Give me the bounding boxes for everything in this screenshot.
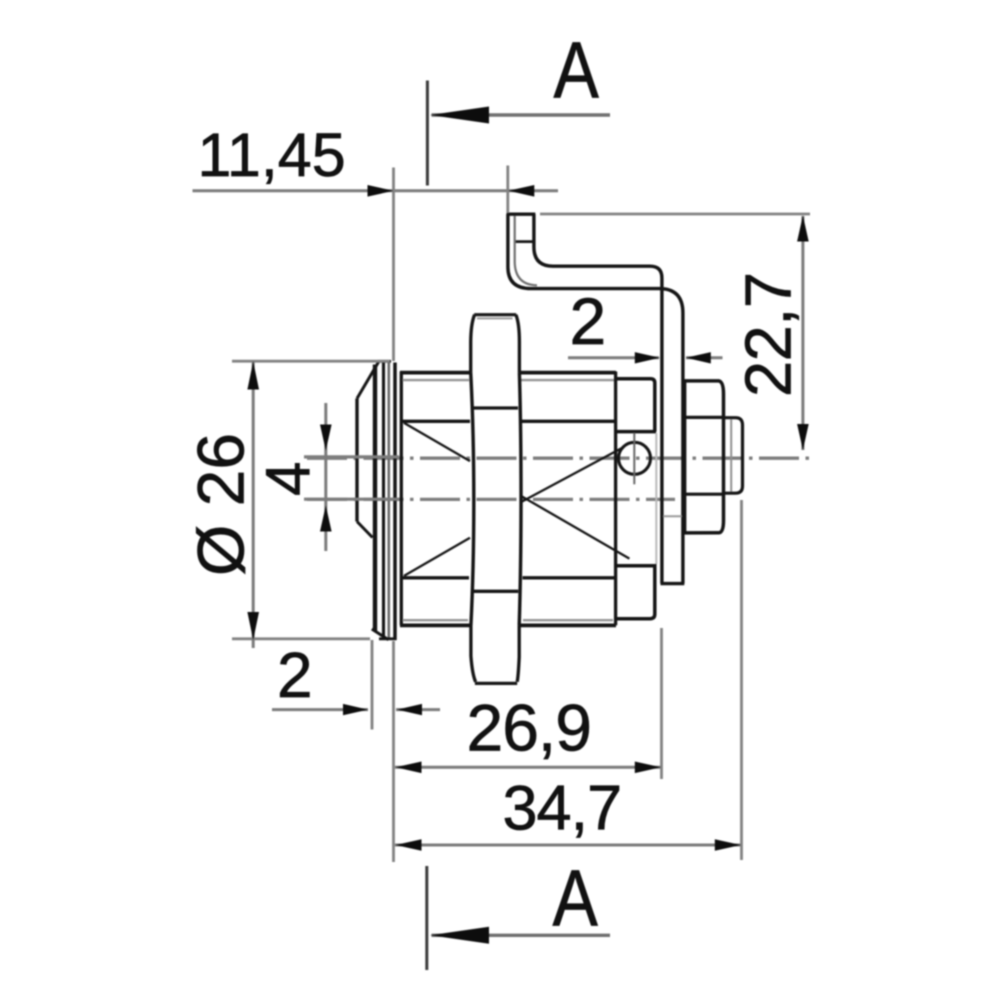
svg-text:2: 2 [277, 639, 313, 711]
head top edge [378, 360, 391, 363]
body inner bottom line [403, 576, 616, 579]
svg-text:4: 4 [254, 462, 323, 496]
dim 4 arrow up [320, 506, 332, 532]
cam bar left edge [471, 373, 474, 626]
dim 26,9 arrow left [396, 762, 422, 774]
dim 22,7 arrow up [797, 216, 809, 242]
diagonal right up [520, 448, 623, 503]
body thread relief bottom gray [403, 619, 614, 621]
head back face [393, 363, 397, 641]
head bottom chamfer [372, 629, 389, 640]
dim 4 line [324, 403, 327, 551]
dim 22,7 extension top [540, 213, 810, 216]
dim 11,45 extension right [506, 166, 509, 214]
dim 2 bracket arrow right [635, 352, 660, 363]
dim dia26 extension bottom [232, 637, 370, 640]
head rim front edge [373, 365, 377, 631]
body rear top block [616, 379, 656, 432]
body thread relief top gray [403, 379, 615, 381]
nut facet bottom [685, 493, 723, 496]
cam bar right edge [519, 373, 521, 626]
dim 34,7 arrow right [715, 839, 741, 851]
dim 11,45 arrow right [368, 185, 394, 197]
dim dia26 arrow up [247, 362, 259, 390]
dim 2 head line left [272, 708, 368, 711]
section arrow line top [432, 113, 611, 116]
head rim ring line [382, 362, 385, 639]
dim 4 arrow down [320, 425, 332, 451]
cam bar top cap underline gray [477, 317, 513, 319]
dim 2 bracket arrow left [686, 352, 711, 363]
svg-text:11,45: 11,45 [198, 121, 346, 189]
dim 11,45 extension left [392, 168, 395, 362]
bracket notch tick [516, 240, 535, 243]
head bottom edge [379, 637, 397, 640]
cam bar internal top line [473, 406, 518, 409]
dim 22,7 line [801, 216, 804, 450]
shaft thread line gray [730, 420, 732, 492]
body rear bottom block [616, 564, 656, 619]
bracket top cap [507, 212, 536, 215]
shaft end [724, 418, 743, 494]
section line A bottom [425, 866, 428, 970]
diagonal right down [520, 495, 629, 558]
body left edge [400, 372, 403, 626]
head rim ring line gray [387, 362, 390, 638]
cam bar internal bottom line [473, 590, 519, 593]
section arrowhead top [430, 107, 489, 124]
body rear faint line [655, 433, 657, 564]
svg-text:22,7: 22,7 [732, 272, 805, 397]
diagonal upper left [404, 423, 470, 461]
dim dia26 extension top [232, 360, 390, 363]
dim 2 head extension left [371, 640, 374, 730]
bracket outer contour [508, 214, 683, 584]
bracket hidden tick gray [663, 515, 682, 517]
dim 4 extension segments [304, 457, 399, 499]
hole circle [619, 442, 651, 474]
body top edge [400, 371, 616, 375]
dim 11,45 line [193, 189, 559, 192]
svg-text:26,9: 26,9 [467, 691, 591, 765]
dim 2 head line right [396, 708, 440, 711]
bracket fold edge line [515, 216, 537, 285]
dim 26,9 extension right [660, 628, 663, 779]
body bottom edge [400, 624, 616, 628]
centerline body axis [307, 498, 675, 501]
dim 26,9 line [395, 766, 661, 769]
dim 2 head arrow left [397, 704, 422, 715]
cam bar bottom cap [475, 682, 517, 685]
centerline main axis [307, 457, 812, 460]
svg-text:A: A [554, 25, 600, 114]
dim 34,7 extension right [740, 500, 743, 860]
dim 2 bracket line left [568, 356, 659, 359]
dim 11,45 arrow left [508, 185, 534, 197]
head bottom cone diagonal [357, 522, 373, 538]
cam bar top cap [474, 313, 516, 316]
cam bar top flanks [471, 315, 520, 373]
nut outline [684, 380, 724, 534]
section arrowhead bottom [430, 927, 489, 944]
bracket inner contour [534, 214, 662, 584]
head top cone diagonal [357, 362, 379, 399]
dim 2 head arrow right [343, 704, 368, 715]
diagonal lower left [404, 538, 470, 576]
dim dia26 arrow down [247, 612, 259, 640]
section arrow line bottom [432, 934, 611, 937]
hole crosshair vertical [633, 433, 635, 485]
section line A top [426, 81, 429, 186]
dim 2 bracket line right [686, 356, 723, 359]
bracket bottom cap [661, 582, 685, 585]
cam bar bottom flanks [471, 625, 519, 681]
svg-text:2: 2 [570, 284, 607, 358]
dim 34,7 line [395, 844, 741, 847]
dim 26,9 arrow right [635, 762, 661, 774]
dim 22,7 arrow down [797, 424, 809, 450]
svg-text:A: A [553, 853, 599, 942]
svg-text:Ø 26: Ø 26 [184, 433, 258, 576]
body inner top line [403, 420, 616, 423]
nut facet top [685, 416, 723, 419]
dim 2 head extension right (shared long) [392, 641, 395, 862]
body right edge [614, 372, 617, 626]
dim dia26 line [252, 361, 255, 648]
svg-text:34,7: 34,7 [503, 774, 622, 844]
head front face [355, 399, 358, 522]
dim 34,7 arrow left [396, 839, 422, 851]
